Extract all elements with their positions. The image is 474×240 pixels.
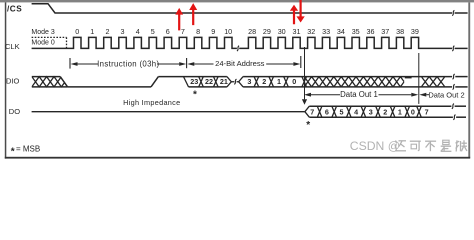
svg-text:31: 31 <box>293 27 301 36</box>
break mark on CLK low line <box>237 46 239 51</box>
svg-text:0: 0 <box>292 77 296 86</box>
X transitions between address bits 23/22 and 22/21 <box>199 77 204 87</box>
svg-text:DIO: DIO <box>6 76 20 85</box>
svg-text:3: 3 <box>121 27 125 36</box>
DIO hatch top rail <box>32 76 60 78</box>
DO data cells top rail <box>309 105 451 107</box>
svg-text:36: 36 <box>367 27 375 36</box>
svg-text:22: 22 <box>205 77 213 86</box>
svg-text:6: 6 <box>325 107 329 116</box>
svg-text:*: * <box>11 147 15 158</box>
left arrowhead of Data Out 1 measure <box>304 93 311 97</box>
break mark on /CS line <box>452 10 454 15</box>
DO data cells bottom rail <box>309 116 453 118</box>
break mark on DIO bottom rail <box>453 84 455 89</box>
svg-text:Instruction (03h): Instruction (03h) <box>97 60 159 69</box>
DO top rail continuation <box>455 105 466 107</box>
svg-text:6: 6 <box>166 27 170 36</box>
vertical line between Data Out 1 and Data Out 2 <box>418 53 420 104</box>
measure line right of Data Out 1 text <box>379 94 412 96</box>
DIO transition into bit 23 <box>184 77 189 87</box>
svg-text:7: 7 <box>310 107 314 116</box>
top gray bar of frame <box>0 0 474 2</box>
right arrowhead of Data Out 1 measure <box>411 93 418 97</box>
measure line left of 24-Bit Address text <box>194 63 213 65</box>
DIO hatch bottom rail <box>32 86 68 88</box>
svg-text:2: 2 <box>383 107 387 116</box>
svg-text:9: 9 <box>211 27 215 36</box>
DIO top rail bits 3-0 and dont-care hatch <box>243 76 452 78</box>
break mark on CLK right end <box>452 46 454 51</box>
tick mark at start of instruction phase <box>69 58 71 69</box>
svg-text:5: 5 <box>340 107 344 116</box>
svg-text:10: 10 <box>224 27 232 36</box>
svg-text:4: 4 <box>136 27 140 36</box>
svg-text:24-Bit Address: 24-Bit Address <box>215 59 265 68</box>
DO bottom rail continuation <box>456 116 466 118</box>
svg-text:0: 0 <box>411 107 415 116</box>
svg-text:2: 2 <box>262 77 266 86</box>
bottom frame border <box>5 157 470 159</box>
tick mark at instruction/address boundary <box>186 58 188 68</box>
DIO mid line before break <box>231 81 234 83</box>
svg-text:29: 29 <box>263 27 271 36</box>
svg-text:4: 4 <box>354 107 358 116</box>
svg-text:3: 3 <box>247 77 251 86</box>
vertical line at clock 31 data-out start <box>304 47 306 99</box>
red up arrow at clock 7 <box>175 8 183 31</box>
svg-text:5: 5 <box>151 27 155 36</box>
svg-text:DO: DO <box>9 107 20 116</box>
watermark CJK characters (hand drawn) <box>395 140 467 151</box>
down arrowhead to first DO bit <box>302 99 307 105</box>
svg-text:Data Out 1: Data Out 1 <box>340 90 378 99</box>
svg-text:21: 21 <box>220 77 228 86</box>
svg-text:30: 30 <box>278 27 286 36</box>
svg-text:High Impedance: High Impedance <box>123 98 180 107</box>
right arrowhead of Instruction measure <box>179 62 186 66</box>
DIO address hexagons top rail (23-21) <box>184 76 227 78</box>
svg-text:38: 38 <box>396 27 404 36</box>
DIO converge after bit 21 <box>227 77 231 87</box>
svg-text:7: 7 <box>181 27 185 36</box>
svg-text:Data Out 2: Data Out 2 <box>428 90 464 99</box>
break mark on DIO top rail <box>453 74 455 79</box>
DIO mid line after break <box>237 81 239 83</box>
svg-text:8: 8 <box>196 27 200 36</box>
svg-text:CSDN @: CSDN @ <box>350 139 400 153</box>
DIO hatch closing diagonal <box>60 77 67 87</box>
break mark on DO bottom rail <box>453 115 455 120</box>
wire DIO low during instruction bits 0 <box>68 86 151 88</box>
left frame border <box>5 2 7 158</box>
X transitions between DO data bits <box>317 106 322 117</box>
svg-text:1: 1 <box>277 77 281 86</box>
DIO address hexagons bottom rail (23-21) <box>189 86 227 88</box>
svg-text:35: 35 <box>352 27 360 36</box>
svg-text:28: 28 <box>248 27 256 36</box>
svg-text:7: 7 <box>425 107 429 116</box>
tick mark at end of address phase <box>300 56 302 68</box>
svg-text:*: * <box>306 120 310 131</box>
red up arrow at clock 8 <box>189 3 197 25</box>
wire CLK clocks 0-10 <box>32 37 237 48</box>
svg-text:Mode 3: Mode 3 <box>31 29 54 36</box>
DIO bottom rail bits 3-0 and dont-care hatch <box>243 86 452 88</box>
left arrowhead of Instruction measure <box>71 62 78 66</box>
X transitions between address bits 3/2, 2/1, 1/0 <box>254 77 259 87</box>
wire CLK clocks 28-39 <box>239 37 452 48</box>
measure line left of Data Out 1 text <box>311 94 340 96</box>
DIO top rail continuation <box>455 76 467 78</box>
svg-text:23: 23 <box>190 77 198 86</box>
dotted Mode 3 level line <box>32 36 67 38</box>
svg-text:/CS: /CS <box>7 5 22 14</box>
DO diverge into data bit 7 <box>305 106 309 117</box>
break mark on DO top rail <box>452 104 454 109</box>
measure stub before Data Out 2 text <box>426 94 429 96</box>
wire /CS low continuation after break <box>455 12 468 14</box>
svg-text:CLK: CLK <box>5 42 20 51</box>
wire /CS: high then falling to active low <box>32 4 453 13</box>
measure line right of Instruction text <box>157 63 179 65</box>
right frame border <box>468 2 470 157</box>
svg-text:1: 1 <box>398 107 402 116</box>
svg-text:0: 0 <box>75 27 79 36</box>
svg-text:3: 3 <box>369 107 373 116</box>
svg-text:*: * <box>193 90 197 101</box>
svg-text:33: 33 <box>322 27 330 36</box>
left arrowhead of 24-Bit Address measure <box>187 62 194 66</box>
wire CLK low continuation after break <box>455 47 468 49</box>
DIO diverge into bit 3 <box>239 77 243 87</box>
wire DIO high for instruction bits 11 <box>158 76 183 78</box>
red down arrow at clock 31 <box>296 0 304 23</box>
svg-text:2: 2 <box>106 27 110 36</box>
svg-text:39: 39 <box>411 27 419 36</box>
svg-text:= MSB: = MSB <box>16 144 40 153</box>
wire DO high impedance line <box>32 111 305 113</box>
break mark on DIO between bit 21 and bit 3 <box>234 79 236 84</box>
DIO bottom rail continuation <box>455 86 467 88</box>
svg-text:34: 34 <box>337 27 345 36</box>
short thick segment on DIO top rail in hatch gap <box>405 76 412 78</box>
svg-text:37: 37 <box>381 27 389 36</box>
left arrowhead of Data Out 2 measure <box>419 93 426 97</box>
dotted Mode 3 vertical drop <box>66 37 68 48</box>
DIO rising edge for instruction bits 11 <box>151 77 158 87</box>
clock cycle numbers 28-39 <box>248 27 419 36</box>
measure line left of Instruction text <box>78 63 99 65</box>
svg-text:Mode 0: Mode 0 <box>31 40 54 47</box>
right arrowhead of 24-Bit Address measure <box>293 62 300 66</box>
svg-text:1: 1 <box>90 27 94 36</box>
clock cycle numbers 0-10 <box>75 27 232 36</box>
measure line right of 24-Bit Address text <box>266 63 293 65</box>
red up arrow at clock 31 <box>290 5 298 24</box>
svg-text:32: 32 <box>307 27 315 36</box>
